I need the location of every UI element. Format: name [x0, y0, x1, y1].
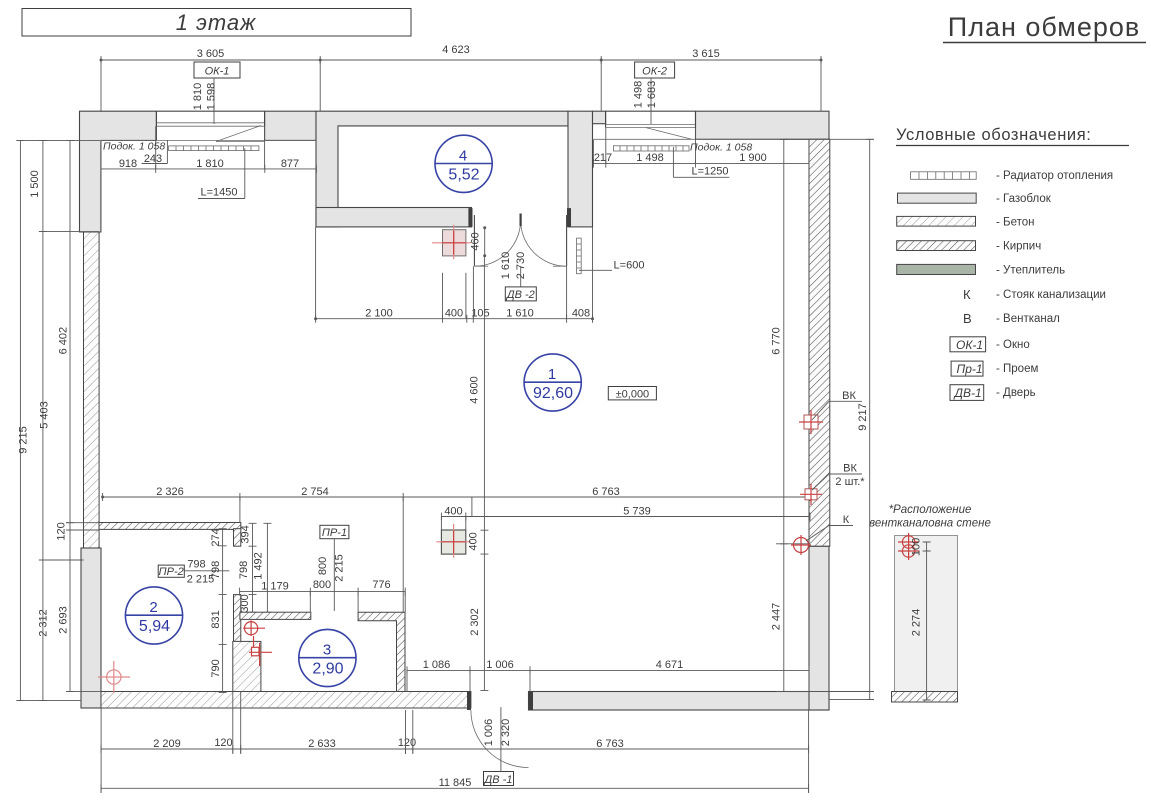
svg-text:400: 400 [445, 308, 463, 320]
wall: bottom right gazoblock [529, 692, 830, 711]
legend gazoblock [898, 193, 977, 203]
wall: room 4 bottom wall [316, 208, 472, 227]
svg-text:776: 776 [372, 579, 390, 591]
wall: room3 top wall piece 2 + right wall [358, 612, 405, 691]
room circle 1 [524, 354, 581, 411]
svg-text:1 900: 1 900 [739, 152, 767, 164]
svg-text:5 403: 5 403 [39, 401, 51, 429]
wall: room2 top gypsum wall (dark hatch) [99, 523, 241, 530]
legend kirpich [897, 241, 976, 251]
label DV-1 with leader [483, 707, 514, 786]
svg-text:3: 3 [323, 642, 331, 659]
dimension chain under OK-2: 217 | 1498 | 1900 [593, 128, 809, 168]
svg-text:- Газоблок: - Газоблок [996, 193, 1052, 205]
wall: top-left gazoblock block [80, 111, 157, 232]
red fixture: vent square middle [436, 517, 479, 558]
room circle 2 [125, 587, 182, 644]
label PR-2 with leader [158, 559, 229, 586]
wall: left concrete (hatched) [84, 232, 100, 548]
svg-text:831: 831 [210, 610, 222, 628]
chain x=70: 6402|120|2693 [56, 140, 75, 691]
svg-text:1 500: 1 500 [29, 170, 41, 198]
detail: vent wall elevation [892, 533, 958, 702]
dimension chain middle: 2100|400|105|1610|408 [314, 227, 594, 517]
svg-text:1 610: 1 610 [506, 308, 534, 320]
svg-text:4 671: 4 671 [656, 659, 684, 671]
svg-text:2 633: 2 633 [308, 738, 336, 750]
dimension chain under OK-1: 918 | 1810 | 877 + 243 [101, 126, 317, 173]
sill inner line left [101, 139, 316, 141]
svg-text:L=600: L=600 [614, 260, 645, 272]
vertical dim 4600 and 2302 [469, 256, 489, 691]
svg-text:- Кирпич: - Кирпич [996, 241, 1041, 253]
svg-text:1 810: 1 810 [196, 158, 224, 170]
dimension chain 400|5739 [441, 506, 810, 521]
dark cap door DV-1 left jamb [467, 692, 471, 711]
svg-text:L=1250: L=1250 [691, 166, 728, 178]
svg-text:2 шт.*: 2 шт.* [835, 476, 865, 488]
svg-text:9 215: 9 215 [18, 426, 30, 454]
dimension chain bottom inner: 1086|1006|4671 [407, 659, 809, 692]
wall: PR-2 wall lower segment [234, 595, 241, 643]
svg-text:- Вентканал: - Вентканал [996, 313, 1060, 325]
wall: right bottom gazoblock [809, 546, 829, 710]
dimension chain top overall [100, 44, 823, 112]
svg-text:1 179: 1 179 [261, 581, 289, 593]
svg-text:6 763: 6 763 [596, 738, 624, 750]
wall: top piece right of room4 column [593, 111, 606, 124]
red fixture: VK square 2 on right wall [800, 463, 865, 506]
svg-text:100: 100 [911, 538, 923, 556]
svg-text:- Утеплитель: - Утеплитель [996, 265, 1065, 277]
svg-text:3 605: 3 605 [197, 48, 225, 60]
svg-text:394: 394 [240, 525, 252, 543]
chain x=42.9: 1500|5403|2312 [29, 140, 51, 700]
svg-text:1 086: 1 086 [423, 659, 451, 671]
svg-text:1 498: 1 498 [633, 81, 645, 109]
svg-text:5 739: 5 739 [623, 506, 651, 518]
svg-text:1 006: 1 006 [483, 719, 495, 747]
interior vertical dims left of PR-2 wall: 274|798|831|790 [210, 528, 227, 692]
svg-text:2 754: 2 754 [301, 486, 329, 498]
right extension lines [776, 139, 874, 699]
wall: PR-2 wall upper segment [234, 529, 241, 547]
svg-text:2 320: 2 320 [500, 719, 512, 747]
svg-text:ПР-2: ПР-2 [159, 566, 184, 578]
dark cap door DV-1 right jamb [529, 692, 534, 711]
svg-text:2 274: 2 274 [911, 609, 923, 637]
main title "План обмеров" [943, 12, 1146, 43]
radiator under OK-2 [613, 146, 689, 151]
svg-text:798: 798 [187, 559, 205, 571]
dimension overall bottom: 11845 [101, 777, 809, 792]
vertical dim 460 [470, 226, 487, 257]
wall: right brick (dark hatch) [809, 139, 830, 546]
svg-text:Подок. 1 058: Подок. 1 058 [690, 142, 752, 154]
chain x=869.7: 9217 [857, 139, 874, 699]
svg-text:4 623: 4 623 [442, 44, 470, 56]
room circle 3 [299, 629, 356, 686]
svg-text:ДВ -1: ДВ -1 [483, 774, 513, 786]
red fixture: K circle on right wall [791, 514, 853, 555]
svg-text:1 006: 1 006 [486, 659, 514, 671]
note text [869, 504, 991, 530]
svg-text:217: 217 [594, 152, 612, 164]
svg-text:- Окно: - Окно [996, 339, 1030, 351]
door DV-1 arc [471, 710, 529, 768]
svg-text:877: 877 [281, 158, 299, 170]
radiator under OK-1 [169, 146, 259, 151]
legend OK-1 [950, 337, 986, 352]
dark cap room4 right wall bottom-left [567, 208, 571, 227]
svg-text:1: 1 [548, 366, 556, 383]
svg-text:1 810: 1 810 [192, 83, 204, 111]
svg-text:2 447: 2 447 [771, 603, 783, 631]
svg-text:2 302: 2 302 [469, 608, 481, 636]
svg-text:- Радиатор отопления: - Радиатор отопления [996, 170, 1113, 182]
svg-text:- Дверь: - Дверь [996, 387, 1036, 399]
svg-text:*Расположение: *Расположение [889, 504, 972, 516]
wall: top between OK-1 and room4 [265, 111, 316, 140]
svg-text:300: 300 [239, 594, 251, 612]
dimension chain bottom: 2209|120|2633|120|6763 [101, 692, 809, 794]
svg-text:ДВ -2: ДВ -2 [505, 289, 535, 301]
svg-text:2 100: 2 100 [365, 308, 393, 320]
svg-text:ОК-1: ОК-1 [956, 338, 983, 352]
title box "1 этаж" [22, 9, 411, 37]
legend DV-1 [950, 385, 984, 401]
legend uteplitel [897, 264, 976, 274]
legend [896, 126, 1129, 400]
svg-text:274: 274 [210, 528, 222, 546]
svg-text:2 209: 2 209 [153, 738, 181, 750]
svg-text:ВК: ВК [843, 463, 857, 475]
wall: concrete pillar bottom [233, 641, 261, 691]
svg-text:798: 798 [238, 561, 250, 579]
svg-text:2 312: 2 312 [38, 609, 50, 637]
red fixture: vent square room 4 [432, 225, 471, 260]
svg-text:1 598: 1 598 [206, 83, 218, 111]
svg-text:6 763: 6 763 [592, 486, 620, 498]
svg-text:798: 798 [210, 561, 222, 579]
svg-text:400: 400 [444, 506, 462, 518]
svg-text:408: 408 [572, 308, 590, 320]
svg-text:1 683: 1 683 [646, 81, 658, 109]
svg-text:6 402: 6 402 [58, 327, 70, 355]
red fixture: VK square 1 on right wall [799, 390, 862, 434]
dimension chain rooms 2-3: 1179|800|776 [240, 579, 406, 612]
leader L=1250 [673, 147, 729, 178]
svg-text:918: 918 [119, 158, 137, 170]
wall: left bottom gazoblock [81, 548, 101, 708]
svg-text:2 693: 2 693 [58, 606, 70, 634]
leader L=1450 [198, 148, 245, 198]
svg-text:1 492: 1 492 [253, 552, 265, 580]
svg-text:400: 400 [468, 532, 480, 550]
label OK-1 with leader [192, 62, 240, 124]
svg-text:9 217: 9 217 [857, 403, 869, 431]
svg-text:- Стояк канализации: - Стояк канализации [996, 289, 1106, 301]
svg-text:120: 120 [56, 522, 68, 540]
door DV-2 double arcs [474, 214, 566, 267]
svg-text:790: 790 [210, 659, 222, 677]
svg-text:К: К [843, 514, 850, 526]
leader L=600 [579, 260, 644, 272]
svg-text:105: 105 [471, 308, 489, 320]
svg-text:2 730: 2 730 [515, 252, 527, 280]
label DV-2 with leader [500, 252, 536, 301]
legend beton [897, 216, 976, 226]
svg-text:2 326: 2 326 [156, 486, 184, 498]
window OK-2 [606, 111, 696, 139]
svg-text:5,52: 5,52 [448, 167, 479, 184]
svg-text:ОК-1: ОК-1 [205, 66, 230, 78]
legend Pr-1 [951, 361, 983, 376]
wall: top-right gazoblock [696, 111, 830, 139]
chain x=20.4: 9215 [16, 140, 29, 700]
interior vertical dims right of PR-2 wall: 394|798|300 [238, 523, 257, 612]
red fixture: circle in room 2 [98, 661, 130, 693]
svg-text:11 845: 11 845 [439, 777, 472, 789]
wall: bottom concrete hatched left part [101, 692, 471, 709]
left extension lines [16, 140, 101, 700]
svg-text:800: 800 [317, 557, 329, 575]
svg-text:2: 2 [149, 599, 157, 616]
svg-text:4: 4 [459, 148, 467, 165]
dark cap room4 bottom wall end [468, 208, 472, 227]
sill inner line right [593, 138, 810, 140]
label OK-2 with leader [633, 62, 675, 124]
legend radiator symbol [911, 172, 977, 180]
svg-text:120: 120 [214, 737, 232, 749]
svg-text:1 610: 1 610 [500, 252, 512, 280]
svg-text:ВК: ВК [842, 390, 856, 402]
svg-text:92,60: 92,60 [533, 385, 573, 402]
svg-text:- Бетон: - Бетон [996, 217, 1034, 229]
svg-text:L=1450: L=1450 [200, 187, 237, 199]
svg-text:1 498: 1 498 [636, 152, 664, 164]
radiator vertical right [577, 238, 582, 274]
svg-text:800: 800 [313, 579, 331, 591]
svg-text:ДВ-1: ДВ-1 [953, 386, 982, 400]
svg-text:4 600: 4 600 [469, 376, 481, 404]
svg-text:460: 460 [470, 232, 482, 250]
svg-text:243: 243 [144, 153, 162, 165]
svg-text:Подок. 1 058: Подок. 1 058 [103, 141, 165, 153]
wall: room3 top wall piece 1 [240, 612, 311, 619]
svg-text:ОК-2: ОК-2 [642, 66, 667, 78]
chain x=783.8: 6770|2447 [771, 139, 788, 691]
svg-text:- Проем: - Проем [996, 363, 1038, 375]
svg-text:6 770: 6 770 [771, 327, 783, 355]
wall: room 4 right wall column [568, 111, 593, 227]
label PR-1 with leader [317, 525, 349, 611]
svg-text:Пр-1: Пр-1 [957, 362, 983, 376]
svg-text:вентканаловна стене: вентканаловна стене [869, 518, 991, 530]
red fixture: circle + square near pillar [243, 621, 272, 667]
svg-text:2 215: 2 215 [334, 554, 346, 582]
window OK-1 [156, 111, 264, 141]
svg-text:План обмеров: План обмеров [948, 12, 1140, 42]
svg-text:К: К [963, 287, 971, 302]
interior vertical dim 1492 [253, 523, 272, 612]
wall: room 4 left wall + top band [316, 111, 568, 227]
svg-text:ПР-1: ПР-1 [322, 527, 347, 539]
svg-text:±0,000: ±0,000 [616, 388, 650, 400]
svg-text:120: 120 [398, 737, 416, 749]
elevation mark box [608, 387, 656, 401]
svg-text:В: В [963, 311, 972, 326]
svg-text:2,90: 2,90 [312, 661, 343, 678]
svg-text:5,94: 5,94 [139, 618, 170, 635]
svg-text:3 615: 3 615 [692, 48, 720, 60]
svg-text:1 этаж: 1 этаж [176, 10, 257, 35]
room circle 4 [435, 135, 492, 192]
svg-text:Условные обозначения:: Условные обозначения: [896, 126, 1091, 144]
dimension chain room widths: 2326|2754|6763 [101, 486, 811, 612]
